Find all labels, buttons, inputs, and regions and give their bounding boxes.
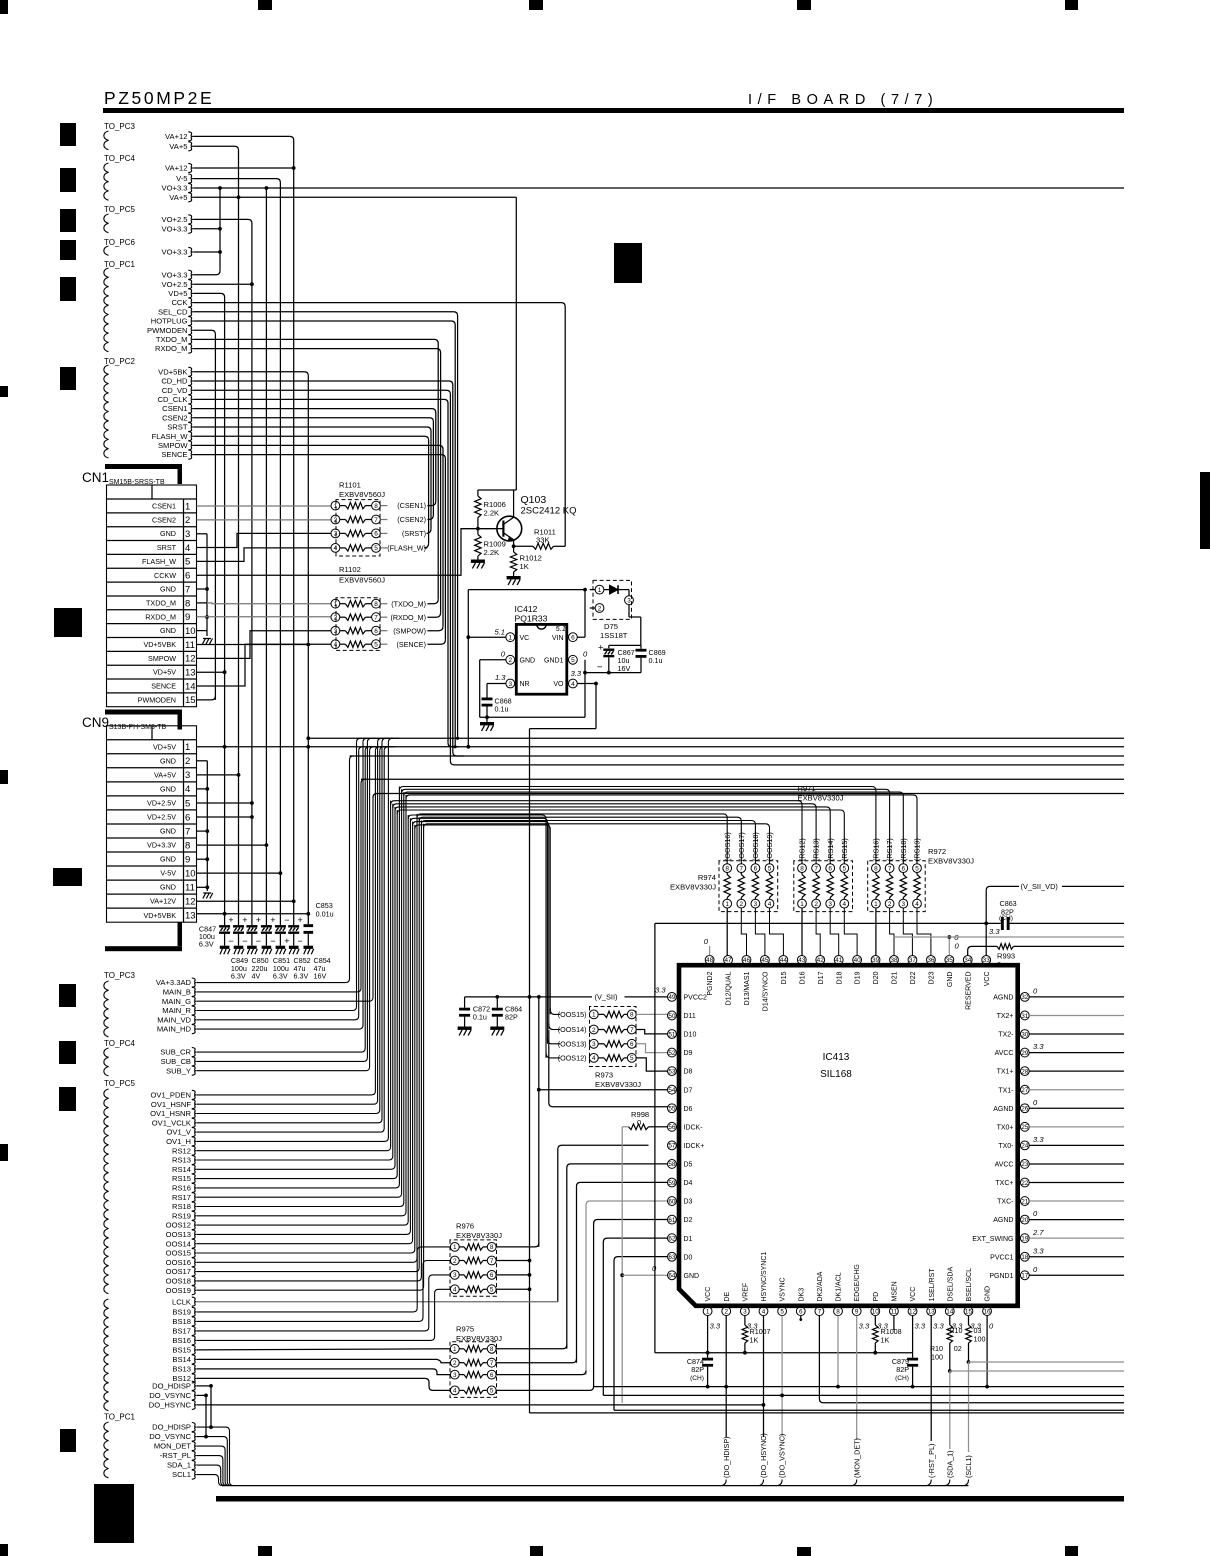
svg-text:8: 8 (874, 865, 878, 872)
svg-text:54: 54 (668, 1087, 676, 1094)
svg-text:(MON_DET): (MON_DET) (852, 1438, 861, 1478)
svg-text:17: 17 (1021, 1273, 1029, 1280)
svg-text:(DO_VSYNC): (DO_VSYNC) (778, 1434, 787, 1478)
svg-text:7: 7 (185, 584, 190, 595)
svg-text:3.3: 3.3 (1033, 1246, 1044, 1255)
svg-text:4: 4 (762, 1309, 766, 1316)
svg-text:5: 5 (490, 1287, 494, 1294)
R973 tail (549, 1024, 559, 1030)
IC412 pin2 GND (506, 655, 515, 664)
svg-text:2: 2 (509, 657, 513, 664)
svg-text:GND: GND (520, 657, 536, 664)
svg-text:DE: DE (724, 1291, 731, 1301)
svg-text:SRST: SRST (167, 423, 188, 432)
wire CSEN1 (193, 409, 436, 502)
svg-text:12: 12 (185, 897, 196, 908)
net V_SII (465, 996, 592, 998)
svg-text:IC412: IC412 (515, 604, 538, 614)
svg-text:GND: GND (160, 827, 176, 836)
svg-text:TO_PC3: TO_PC3 (104, 122, 136, 131)
wire DO_VSYNC left (197, 1394, 206, 1396)
svg-text:D14/SYNCO: D14/SYNCO (763, 971, 770, 1011)
wire gray y937 (893, 936, 1124, 938)
svg-text:OV1_HSNR: OV1_HSNR (150, 1109, 191, 1118)
svg-text:-RST_PL: -RST_PL (160, 1451, 191, 1460)
svg-text:3.3: 3.3 (1033, 1135, 1044, 1144)
svg-text:47: 47 (724, 957, 732, 964)
wire RXDO_M (193, 349, 440, 613)
svg-text:13: 13 (185, 668, 196, 679)
pin14 wire cont (949, 1371, 951, 1449)
wire BS19 (197, 1247, 451, 1312)
wire RS18 (197, 792, 404, 1206)
svg-text:(-RST_PL): (-RST_PL) (927, 1444, 936, 1478)
resistor network R1102 (331, 599, 340, 608)
svg-text:29: 29 (1021, 1050, 1029, 1057)
svg-text:EXBV8V330J: EXBV8V330J (456, 1231, 502, 1240)
svg-text:2: 2 (185, 515, 190, 526)
svg-text:2.7: 2.7 (1032, 1228, 1044, 1237)
CN1 pin14 wire (197, 644, 332, 686)
svg-text:PWMODEN: PWMODEN (147, 326, 188, 335)
svg-text:2: 2 (814, 901, 818, 908)
transistor Q103 (497, 516, 522, 541)
pin16 wire (986, 1316, 988, 1387)
svg-text:EXBV8V330J: EXBV8V330J (798, 794, 844, 803)
IC412 VO wire (577, 683, 596, 685)
svg-text:53: 53 (668, 1068, 676, 1075)
svg-text:3: 3 (743, 1309, 747, 1316)
ground below C864 (490, 1027, 504, 1030)
svg-text:(RS14): (RS14) (826, 838, 835, 861)
svg-text:SMPOW: SMPOW (148, 654, 176, 663)
IC413 bottom pins (703, 1307, 712, 1316)
CN9 pin13 wire (197, 913, 309, 915)
svg-text:5: 5 (630, 1055, 634, 1062)
svg-text:EDGE/CHG: EDGE/CHG (854, 1264, 861, 1301)
wire GND64 (622, 1274, 667, 1276)
CN9 pin10 wire (197, 872, 281, 874)
svg-text:EXBV8V560J: EXBV8V560J (339, 490, 385, 499)
svg-text:+: + (242, 915, 247, 925)
svg-text:CN1: CN1 (82, 470, 109, 485)
svg-text:DK3: DK3 (798, 1288, 805, 1302)
svg-text:VO+3.3: VO+3.3 (162, 248, 188, 257)
wire OV1_H (197, 742, 389, 1141)
wire VA+3.3AD (197, 756, 354, 983)
svg-text:(RS15): (RS15) (840, 838, 849, 861)
svg-text:20: 20 (1021, 1217, 1029, 1224)
IC413 right pin wires (1029, 996, 1124, 998)
svg-text:2: 2 (598, 605, 602, 612)
svg-text:5: 5 (374, 545, 378, 552)
wire RS14 (197, 807, 395, 1169)
svg-text:100: 100 (931, 1353, 943, 1362)
svg-text:3: 3 (627, 598, 631, 605)
svg-text:HOTPLUG: HOTPLUG (151, 317, 188, 326)
svg-text:44: 44 (780, 957, 788, 964)
svg-text:PWMODEN: PWMODEN (138, 695, 176, 704)
svg-text:0.01u: 0.01u (316, 910, 334, 919)
capacitor C863 (655, 922, 1001, 924)
svg-text:+: + (270, 915, 275, 925)
wire BS14 (197, 1359, 451, 1362)
svg-text:1SEL/RST: 1SEL/RST (929, 1268, 936, 1302)
svg-text:D3: D3 (684, 1199, 693, 1206)
resistor network R975 (450, 1344, 459, 1353)
diode D75 (593, 580, 632, 619)
svg-text:3.3: 3.3 (1033, 1042, 1044, 1051)
wire VO+2.5 tap (193, 283, 252, 285)
pin5 wire (781, 1316, 783, 1437)
svg-text:EXT_SWING: EXT_SWING (972, 1236, 1013, 1243)
svg-text:PGND2: PGND2 (707, 971, 714, 995)
wire VA+12 (193, 135, 290, 137)
svg-text:0.1u: 0.1u (495, 705, 509, 714)
svg-text:32: 32 (1021, 994, 1029, 1001)
svg-text:OOS15: OOS15 (166, 1249, 191, 1258)
pin11 stub (893, 1316, 895, 1330)
svg-text:62: 62 (668, 1235, 676, 1242)
svg-text:−: − (242, 936, 247, 946)
svg-text:7: 7 (888, 865, 892, 872)
svg-text:55: 55 (668, 1106, 676, 1113)
header rule (103, 108, 1124, 113)
svg-text:2: 2 (888, 901, 892, 908)
wire CD_HD (193, 381, 453, 752)
svg-text:11: 11 (891, 1309, 898, 1316)
svg-text:D13/MAS1: D13/MAS1 (744, 971, 751, 1005)
svg-text:1: 1 (592, 1012, 596, 1019)
svg-text:D8: D8 (684, 1069, 693, 1076)
svg-text:S13B-PH-SM3-TB: S13B-PH-SM3-TB (109, 724, 167, 731)
svg-text:1: 1 (453, 1244, 457, 1251)
svg-text:6: 6 (630, 1041, 634, 1048)
svg-text:6.3V: 6.3V (294, 972, 309, 981)
resistor network R1101 (331, 501, 340, 510)
svg-text:PD: PD (873, 1292, 880, 1302)
svg-text:DK1/ACL: DK1/ACL (836, 1272, 843, 1301)
capacitor C872 (464, 997, 466, 1008)
svg-text:GND: GND (684, 1273, 700, 1280)
svg-text:VD+5V: VD+5V (153, 668, 176, 677)
ground below R1012 (507, 576, 521, 579)
svg-text:3: 3 (453, 1372, 457, 1379)
wire MAIN_HD (197, 742, 363, 1029)
svg-text:16V: 16V (314, 972, 327, 981)
wire SMPOW (193, 445, 443, 626)
svg-text:34: 34 (964, 957, 972, 964)
wire bus y793 (373, 794, 1124, 798)
svg-text:(RS16): (RS16) (872, 838, 881, 861)
resistor R1003 (968, 1316, 970, 1325)
svg-text:(SRST): (SRST) (402, 529, 426, 538)
svg-text:8: 8 (725, 865, 729, 872)
wire FLASH_W (193, 436, 428, 543)
svg-text:10: 10 (185, 626, 196, 637)
svg-text:63: 63 (668, 1254, 676, 1261)
svg-text:VA+5V: VA+5V (154, 770, 176, 779)
svg-text:−: − (298, 936, 303, 946)
svg-text:6.3V: 6.3V (231, 972, 246, 981)
svg-text:33: 33 (983, 957, 991, 964)
svg-text:CSEN1: CSEN1 (152, 502, 176, 511)
svg-text:7: 7 (490, 1258, 494, 1265)
svg-text:21: 21 (1021, 1198, 1029, 1205)
svg-text:D2: D2 (684, 1217, 693, 1224)
svg-text:DSEL/SDA: DSEL/SDA (947, 1267, 954, 1302)
svg-text:DO_HSYNC: DO_HSYNC (149, 1401, 192, 1410)
svg-text:VCC: VCC (910, 1287, 917, 1302)
svg-text:OOS14: OOS14 (166, 1239, 191, 1248)
svg-text:2: 2 (724, 1309, 728, 1316)
svg-text:+: + (256, 915, 261, 925)
svg-text:TO_PC4: TO_PC4 (104, 154, 136, 163)
svg-text:1: 1 (185, 742, 190, 753)
svg-text:OOS13: OOS13 (166, 1230, 191, 1239)
svg-text:1: 1 (800, 901, 804, 908)
svg-text:4: 4 (571, 681, 575, 688)
IC412 pin1 VC (506, 633, 515, 642)
wire SRST (193, 427, 431, 529)
svg-text:R1102: R1102 (339, 565, 361, 574)
svg-text:(OOS13): (OOS13) (558, 1039, 587, 1048)
IC412 VC-VIN net (468, 636, 506, 638)
CN9 pin6 wire (197, 816, 252, 818)
svg-text:(OOS12): (OOS12) (558, 1054, 587, 1063)
wire RS13 (197, 804, 393, 1160)
svg-text:−: − (228, 936, 233, 946)
svg-text:5: 5 (915, 865, 919, 872)
svg-text:41: 41 (835, 957, 843, 964)
wire D0 feeder (614, 1257, 668, 1411)
svg-text:1: 1 (706, 1309, 710, 1316)
svg-text:OV1_PDEN: OV1_PDEN (150, 1091, 191, 1100)
svg-text:TO_PC1: TO_PC1 (104, 260, 136, 269)
svg-text:OOS12: OOS12 (166, 1221, 191, 1230)
resistor R993 (997, 944, 1014, 950)
wire VA+5 to R1006 top (478, 489, 516, 491)
svg-text:VO: VO (553, 681, 564, 688)
svg-text:AGND: AGND (993, 995, 1013, 1002)
wire D6 feeder (549, 1030, 668, 1107)
svg-text:GND: GND (947, 972, 954, 988)
wire LCLK (197, 1301, 558, 1303)
pin34 wire (968, 946, 997, 955)
svg-text:GND: GND (160, 585, 176, 594)
R976 out1 (496, 1243, 539, 1247)
wire D7 feeder (538, 997, 540, 1247)
CN9 pin8 wire (197, 844, 267, 846)
svg-text:7: 7 (630, 1027, 634, 1034)
svg-text:CSEN1: CSEN1 (162, 404, 187, 413)
D75 to caps (628, 605, 630, 618)
svg-text:6: 6 (799, 1309, 803, 1316)
IC413 right pins (1020, 993, 1029, 1002)
svg-text:CSEN2: CSEN2 (152, 515, 176, 524)
IC412 pin5 GND1 (569, 655, 578, 664)
svg-text:MSEN: MSEN (892, 1281, 899, 1301)
IC413 left pins (668, 993, 677, 1002)
wire OOS14 (197, 822, 413, 1244)
wire TXDO_M (193, 339, 438, 599)
svg-text:D75: D75 (604, 622, 618, 631)
svg-text:TX2-: TX2- (998, 1032, 1014, 1039)
svg-text:49: 49 (668, 994, 676, 1001)
svg-text:OOS18: OOS18 (166, 1277, 191, 1286)
svg-text:DO_VSYNC: DO_VSYNC (149, 1432, 191, 1441)
svg-text:CD_CLK: CD_CLK (158, 395, 188, 404)
svg-text:TXDO_M: TXDO_M (146, 598, 176, 607)
svg-text:(DO_HSYNC): (DO_HSYNC) (759, 1433, 768, 1478)
wire gray y1362 (969, 1361, 1125, 1363)
capacitor C864 (496, 997, 498, 1008)
resistor R1007 (744, 1316, 746, 1325)
svg-text:3: 3 (828, 901, 832, 908)
svg-text:TO_PC1: TO_PC1 (104, 1413, 136, 1422)
svg-text:GND: GND (160, 756, 176, 765)
svg-text:D0: D0 (684, 1254, 693, 1261)
svg-text:TX1+: TX1+ (997, 1069, 1014, 1076)
svg-text:2: 2 (453, 1360, 457, 1367)
svg-text:TO_PC5: TO_PC5 (104, 1079, 136, 1088)
svg-text:(OOS19): (OOS19) (765, 832, 774, 861)
wire VCC left vertical (654, 923, 656, 1352)
svg-text:(RS17): (RS17) (885, 838, 894, 861)
svg-text:CSEN2: CSEN2 (162, 413, 187, 422)
wire y1410 (614, 1409, 1124, 1411)
svg-text:OOS17: OOS17 (166, 1267, 191, 1276)
svg-text:D21: D21 (892, 971, 899, 984)
R973 out4 (636, 1058, 667, 1071)
svg-text:12: 12 (909, 1309, 917, 1316)
svg-text:CCK: CCK (171, 298, 187, 307)
svg-text:Q103: Q103 (521, 494, 547, 506)
svg-text:VD+5VBK: VD+5VBK (143, 640, 176, 649)
svg-text:(SMPOW): (SMPOW) (393, 626, 426, 635)
svg-text:(FLASH_W): (FLASH_W) (387, 544, 426, 553)
IC412 gnd net (480, 659, 506, 661)
svg-text:D7: D7 (684, 1087, 693, 1094)
svg-text:TX2+: TX2+ (997, 1013, 1014, 1020)
svg-text:VREF: VREF (742, 1283, 749, 1302)
svg-text:AVCC: AVCC (995, 1162, 1014, 1169)
wire CCK (193, 303, 565, 547)
svg-text:9: 9 (185, 612, 190, 623)
svg-text:AVCC: AVCC (995, 1050, 1014, 1057)
svg-text:EXBV8V330J: EXBV8V330J (595, 1080, 641, 1089)
svg-text:TXC+: TXC+ (995, 1180, 1013, 1187)
R976 out3 (496, 1274, 529, 1276)
wire CD_CLK (193, 399, 448, 742)
svg-text:7: 7 (374, 517, 378, 524)
svg-text:V-5: V-5 (176, 174, 187, 183)
svg-text:VSYNC: VSYNC (780, 1277, 787, 1301)
svg-text:5: 5 (780, 1309, 784, 1316)
svg-text:50: 50 (668, 1013, 676, 1020)
svg-text:D10: D10 (684, 1032, 697, 1039)
svg-text:+: + (598, 643, 604, 654)
svg-text:MAIN_HD: MAIN_HD (157, 1025, 192, 1034)
svg-text:D22: D22 (910, 971, 917, 984)
svg-text:12: 12 (185, 654, 196, 665)
CN1 pin5 wire (197, 548, 332, 562)
wire MAIN_B (197, 779, 365, 992)
svg-text:51: 51 (668, 1031, 676, 1038)
pin35 wire (948, 937, 950, 956)
svg-text:OOS19: OOS19 (166, 1286, 191, 1295)
svg-text:24: 24 (1021, 1143, 1029, 1150)
svg-text:D23: D23 (928, 971, 935, 984)
svg-text:GND: GND (160, 784, 176, 793)
svg-text:10: 10 (872, 1309, 880, 1316)
wire V-5 (193, 179, 280, 914)
wire SUB_CB (197, 742, 368, 1061)
R975 out1 (496, 1345, 567, 1349)
CN9 pin1 wire (197, 746, 1125, 748)
svg-text:8: 8 (490, 1346, 494, 1353)
svg-text:(CSEN2): (CSEN2) (397, 515, 426, 524)
resistor R1006 (477, 490, 479, 496)
pin7 wire (819, 1316, 1124, 1403)
svg-text:3.3: 3.3 (859, 1322, 870, 1331)
svg-text:VD+2.5V: VD+2.5V (147, 798, 176, 807)
svg-text:D4: D4 (684, 1180, 693, 1187)
svg-text:3.3: 3.3 (571, 669, 582, 678)
svg-text:5: 5 (374, 642, 378, 649)
svg-text:VO+2.5: VO+2.5 (162, 280, 188, 289)
IC413 top pins (705, 956, 714, 965)
svg-text:BS13: BS13 (172, 1365, 191, 1374)
svg-text:D6: D6 (684, 1106, 693, 1113)
capacitor C869 (640, 645, 642, 648)
svg-text:D18: D18 (836, 971, 843, 984)
svg-text:R975: R975 (456, 1325, 474, 1334)
wire RS16 (197, 787, 400, 1188)
ground below R1009 (471, 560, 485, 563)
svg-text:2.2K: 2.2K (484, 509, 500, 518)
wire CSEN2 (193, 418, 433, 515)
svg-text:SUB_CR: SUB_CR (160, 1048, 191, 1057)
svg-text:22: 22 (1021, 1180, 1029, 1187)
svg-text:+: + (228, 915, 233, 925)
svg-text:82P: 82P (691, 1365, 704, 1374)
svg-text:VCC: VCC (705, 1287, 712, 1302)
svg-text:7: 7 (374, 615, 378, 622)
wire SENCE (193, 455, 445, 640)
wire DO_HDISP left (197, 1385, 211, 1387)
svg-text:46: 46 (743, 957, 751, 964)
svg-text:R971: R971 (798, 784, 816, 793)
wire OV1_HSNF (197, 742, 378, 1104)
svg-text:5: 5 (490, 1388, 494, 1395)
svg-text:(TXDO_M): (TXDO_M) (391, 599, 426, 608)
svg-text:39: 39 (872, 957, 880, 964)
svg-text:4: 4 (185, 784, 190, 795)
svg-text:6: 6 (374, 531, 378, 538)
svg-text:64: 64 (668, 1273, 676, 1280)
wire OOS17 (197, 817, 420, 1271)
svg-text:5: 5 (185, 557, 190, 568)
ground below C872 (458, 1027, 472, 1030)
svg-text:VCC: VCC (984, 972, 991, 987)
svg-text:0: 0 (997, 960, 1001, 969)
CN1 pin12 wire (197, 631, 332, 659)
svg-text:(CH): (CH) (690, 1375, 704, 1382)
svg-text:7: 7 (818, 1309, 822, 1316)
svg-text:VO+3.3: VO+3.3 (162, 184, 188, 193)
svg-text:1.3: 1.3 (495, 673, 506, 682)
